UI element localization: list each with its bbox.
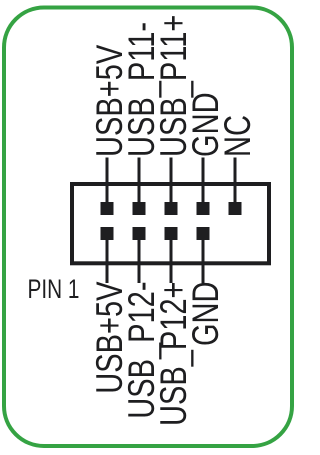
connector header box U1 [72,184,269,263]
label GND (bottom pin 4) [186,282,227,347]
wire stem pin 4 top row [202,158,205,209]
label GND (top pin 4) [186,92,227,157]
wire stem pin 3 bottom row [170,233,173,283]
svg-text:GND: GND [186,282,227,347]
label USB_P12+ (bottom pin 3) [154,282,195,427]
svg-text:PIN 1: PIN 1 [28,274,80,304]
label USB+5V (bottom pin 1) [90,281,131,394]
wire stem pin 1 bottom row [106,233,109,283]
pin pad top row 5 (NC) [229,202,242,215]
pin pad top row 4 (GND) [197,202,210,215]
label USB_P12- (bottom pin 2) [122,282,163,419]
pin pad top row 2 (USB_P11-) [133,202,146,215]
label PIN 1 [28,274,80,304]
pin pad bottom row 3 (USB_P12+) [165,227,178,240]
svg-text:NC: NC [218,115,259,157]
wire stem pin 2 top row [138,158,141,209]
pin pad bottom row 1 (USB+5V) [101,227,114,240]
pin pad bottom row 2 (USB_P12-) [133,227,146,240]
wire stem pin 5 top row [234,158,237,209]
label USB_P11+ (top pin 3) [154,15,195,157]
pin pad bottom row 4 (GND) [197,227,210,240]
wire stem pin 4 bottom row [202,233,205,283]
label NC (top pin 5) [218,115,259,157]
wire stem pin 3 top row [170,158,173,209]
label USB_P11- (top pin 2) [122,22,163,157]
wire stem pin 2 bottom row [138,233,141,283]
wire stem pin 1 top row [106,158,109,209]
label USB+5V (top pin 1) [90,44,131,157]
pin pad top row 3 (USB_P11+) [165,202,178,215]
pin pad top row 1 (USB+5V) [101,202,114,215]
